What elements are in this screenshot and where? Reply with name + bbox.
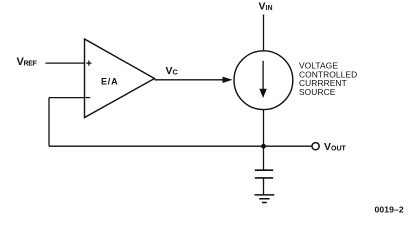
ground symbol	[255, 195, 275, 203]
arrowhead into current source	[223, 77, 233, 83]
svg-text:VC: VC	[166, 65, 179, 77]
junction node at output	[261, 144, 266, 149]
wire feedback: inverting input lead	[49, 97, 85, 99]
current source arrow	[262, 61, 264, 90]
svg-text:SOURCE: SOURCE	[299, 87, 336, 97]
capacitor C1 bottom lead	[263, 179, 265, 195]
svg-text:VIN: VIN	[259, 1, 273, 13]
svg-text:VREF: VREF	[17, 56, 38, 68]
svg-text:0019–2: 0019–2	[375, 204, 404, 214]
capacitor C1 top lead	[263, 146, 265, 169]
terminal VOUT open circle	[312, 143, 319, 150]
svg-text:E/A: E/A	[101, 77, 118, 87]
wire current source bottom to output node	[263, 110, 265, 147]
svg-text:VOUT: VOUT	[324, 141, 347, 153]
op-amp U1 E/A triangle	[85, 39, 155, 118]
wire feedback: bottom horizontal to VOUT	[49, 145, 312, 147]
capacitor C1 plates	[255, 170, 273, 178]
wire op-amp output to current source	[155, 79, 229, 81]
op-amp pin + (non-inverting)	[86, 61, 91, 66]
op-amp pin - (inverting)	[85, 97, 90, 99]
current source CS1 circle	[234, 51, 293, 110]
wire VIN to current source top	[263, 15, 265, 51]
wire VREF lead to op-amp non-inverting input	[46, 62, 85, 64]
wire feedback: vertical segment	[48, 98, 50, 147]
